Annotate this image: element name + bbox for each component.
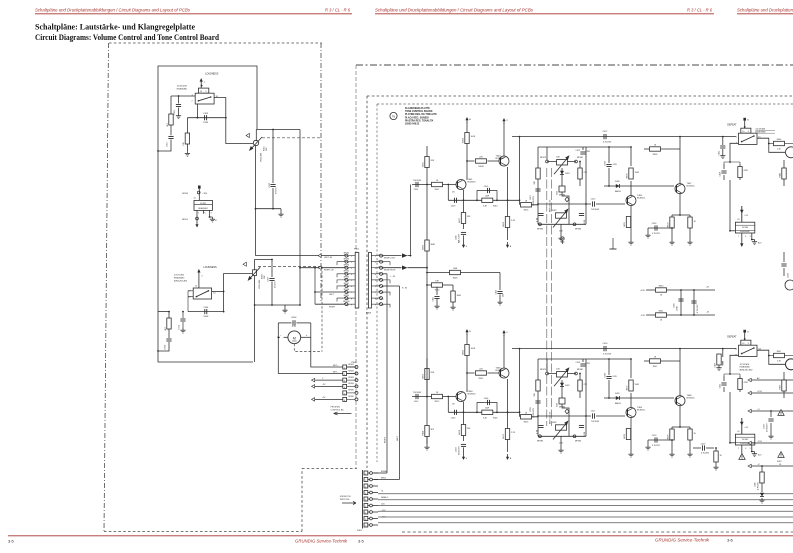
diode D425 wire — [604, 397, 674, 399]
svg-text:+5V: +5V — [744, 427, 748, 429]
capacitor C453 — [454, 198, 456, 203]
SC301 pins — [196, 210, 198, 213]
wire base divider T456 — [467, 372, 475, 374]
wire loudness pin 1 left — [171, 95, 195, 97]
right PCB outline: inner dashed left border — [376, 104, 378, 462]
svg-text:BAV56: BAV56 — [615, 402, 621, 405]
connector P406 pin 5 — [380, 278, 383, 281]
svg-text:MP085: MP085 — [348, 390, 353, 392]
ground C433 — [770, 434, 772, 436]
svg-text:MP083: MP083 — [537, 441, 543, 443]
svg-text:1K: 1K — [525, 412, 528, 414]
svg-text:2: 2 — [365, 480, 366, 482]
edge resistor R443 — [782, 168, 786, 179]
wire motor leads — [284, 336, 288, 338]
svg-text:470R: 470R — [744, 382, 749, 384]
right PCB outline: outer dashed top border — [367, 95, 793, 97]
power arrow +V T456 — [503, 333, 505, 337]
svg-text:R440: R440 — [659, 286, 664, 288]
test point MP084 — [573, 223, 576, 226]
resistor R404 — [465, 133, 469, 144]
wire collector T463 — [503, 123, 505, 156]
test point MP083 — [539, 435, 542, 438]
svg-text:F: F — [466, 246, 468, 248]
volume pot 2 R302 square — [253, 270, 257, 276]
coupling branch C454 — [447, 397, 449, 413]
transistor T466 — [626, 408, 636, 418]
wire loudness left branch — [170, 96, 172, 114]
stub wire P406 pin 5 — [383, 280, 391, 283]
test point MP083 — [539, 223, 542, 226]
svg-text:2.2K: 2.2K — [777, 148, 782, 150]
svg-text:20R: 20R — [431, 372, 435, 374]
capacitor C303 — [204, 115, 206, 120]
bus wire — [378, 505, 793, 507]
svg-text:100N: 100N — [677, 306, 679, 311]
ground stub at C305 bus — [280, 209, 282, 212]
+B rail wire — [646, 289, 715, 291]
IC DC402 supply arrow — [741, 418, 743, 434]
svg-text:4700/25V: 4700/25V — [767, 423, 769, 432]
svg-text:39K: 39K — [534, 180, 536, 184]
svg-text:A1: A1 — [757, 377, 760, 380]
test point MP081 — [575, 372, 578, 375]
svg-text:27K: 27K — [584, 384, 588, 386]
emitter wire T458 — [463, 402, 465, 413]
svg-text:3: 3 — [365, 486, 366, 488]
capacitor C454 — [454, 410, 456, 415]
resistor R437a on -V rail — [761, 465, 763, 467]
bass pot R421 — [557, 372, 568, 377]
power arrow +V T463 — [503, 121, 505, 125]
resistor R433 — [670, 217, 674, 228]
component C437 on rail — [722, 349, 724, 366]
svg-text:TN: TN — [392, 115, 395, 118]
resistor R446 — [769, 143, 774, 145]
svg-text:6: 6 — [375, 286, 376, 288]
svg-text:R424: R424 — [524, 422, 529, 424]
svg-text:7: 7 — [365, 512, 366, 514]
svg-text:1: 1 — [736, 136, 738, 138]
svg-text:1/3 DC401: 1/3 DC401 — [755, 128, 765, 131]
-B rail wire — [646, 314, 715, 316]
svg-text:R 3 / CL - R 6: R 3 / CL - R 6 — [325, 8, 351, 13]
svg-text:–: – — [280, 334, 282, 337]
loudness bus wire — [187, 117, 225, 119]
wire defeat pin 2 branch — [730, 355, 739, 374]
svg-text:C304: C304 — [203, 307, 209, 309]
connector P401 pin 7 — [364, 510, 368, 514]
svg-text:1K: 1K — [436, 180, 439, 182]
wire P401 pin1 to riser — [374, 472, 387, 474]
capacitor C301 — [168, 136, 173, 138]
svg-text:10K: 10K — [559, 231, 563, 233]
resistor R418 on left rail — [536, 168, 540, 179]
ground stub at C307 bus — [284, 305, 286, 308]
defeat switch S401a pin box — [741, 128, 751, 133]
capacitor C425 — [608, 147, 610, 186]
test point MP079 stub — [546, 359, 548, 372]
resistor R450 10R — [427, 284, 432, 286]
arrow to -B rail — [507, 242, 509, 246]
svg-text:39K: 39K — [534, 392, 536, 396]
tone pots mechanical gang dashed line pair — [546, 168, 548, 426]
svg-text:6.8N: 6.8N — [584, 431, 586, 436]
svg-text:4058-287-452: 4058-287-452 — [174, 279, 188, 282]
svg-text:EG4050BC: EG4050BC — [177, 87, 188, 90]
svg-text:100K: 100K — [471, 348, 476, 350]
svg-text:R416: R416 — [524, 210, 529, 212]
P401 vertical frame — [362, 470, 364, 529]
svg-text:9: 9 — [365, 525, 366, 527]
svg-text:V: V — [506, 332, 508, 334]
defeat bypass rail — [512, 136, 736, 138]
svg-text:–15V: –15V — [640, 315, 646, 317]
page fold vertical line — [355, 65, 357, 468]
svg-text:MP084: MP084 — [575, 441, 581, 443]
wire C301 to shield — [158, 140, 171, 152]
connector P801 pin 8 — [345, 297, 348, 300]
stub to volume pot 1 top — [255, 130, 257, 142]
edge vertical wire upper — [783, 160, 785, 186]
connector P401 pin 9 — [364, 523, 368, 527]
svg-text:100N: 100N — [203, 316, 208, 318]
connector P801 pin 4 — [345, 272, 348, 275]
diode D433 — [760, 493, 764, 497]
svg-text:C400: C400 — [456, 234, 458, 240]
svg-text:BC850C: BC850C — [637, 198, 646, 200]
stub wire P406 pin 7 — [383, 292, 391, 295]
svg-text:KLANGREGELPLATTE: KLANGREGELPLATTE — [405, 107, 430, 110]
svg-text:C436: C436 — [755, 482, 757, 487]
collector feed T468 — [661, 349, 680, 361]
edge arrow –V — [748, 464, 751, 468]
svg-text:R411: R411 — [479, 378, 485, 380]
tone network bottom wire — [538, 435, 586, 437]
svg-text:2: 2 — [351, 262, 352, 264]
resistor R439 — [738, 167, 742, 178]
svg-text:1: 1 — [365, 473, 366, 475]
wire right channel vertical — [299, 130, 301, 306]
svg-text:R . IN: R . IN — [402, 288, 407, 290]
svg-text:1K: 1K — [660, 320, 663, 322]
svg-text:R407: R407 — [435, 189, 440, 191]
svg-text:C429: C429 — [701, 443, 706, 445]
svg-text:R422: R422 — [552, 210, 557, 212]
svg-text:2: 2 — [344, 374, 345, 376]
svg-text:C430: C430 — [603, 343, 609, 345]
svg-text:1/3 DC304: 1/3 DC304 — [177, 85, 188, 88]
signal flow triangle at volume pot — [246, 133, 249, 137]
svg-text:MP079: MP079 — [540, 157, 546, 159]
svg-text:LEFT–IN: LEFT–IN — [324, 257, 333, 259]
svg-text:14: 14 — [213, 293, 216, 295]
edge capacitor C432 — [783, 252, 785, 276]
svg-text:3.3N: 3.3N — [613, 164, 618, 166]
svg-text:5: 5 — [375, 280, 376, 282]
svg-text:P406: P406 — [366, 313, 372, 315]
connector P802 pin 2 — [343, 372, 347, 376]
svg-text:LEFT: LEFT — [397, 435, 399, 441]
svg-text:C433: C433 — [764, 423, 766, 429]
base wire T458 — [412, 396, 457, 398]
resistor R416 1K series — [519, 200, 521, 205]
svg-text:2N2: 2N2 — [587, 151, 590, 153]
svg-text:VOLUME: VOLUME — [261, 152, 263, 162]
svg-text:MP082: MP082 — [348, 370, 353, 372]
svg-text:2.2K: 2.2K — [511, 432, 516, 434]
capacitor C304 — [188, 311, 224, 313]
right page bottom dashed border — [402, 531, 793, 533]
capacitor C409 electrolytic — [535, 400, 540, 402]
resistor R425 — [482, 410, 493, 414]
svg-text:C310: C310 — [179, 324, 181, 330]
svg-text:L . IN: L . IN — [391, 276, 396, 278]
svg-text:3: 3 — [375, 268, 376, 270]
svg-text:V: V — [506, 120, 508, 122]
loudness switch box — [195, 93, 214, 104]
svg-text:R418: R418 — [459, 429, 461, 435]
svg-text:RIGHT: RIGHT — [385, 436, 387, 443]
capacitor C413 — [582, 359, 584, 362]
diode D426 — [616, 184, 620, 188]
svg-text:R431: R431 — [624, 221, 626, 227]
svg-text:C425: C425 — [605, 160, 607, 166]
svg-text:P801: P801 — [354, 249, 360, 251]
svg-text:MP063: MP063 — [344, 258, 349, 260]
wire volume pot 1 output — [255, 146, 257, 256]
resistor R307 — [168, 312, 170, 318]
stub wire P406 pin 9 — [383, 304, 391, 307]
resistor R447 — [769, 355, 774, 357]
emitter resistor R413 — [507, 379, 509, 452]
svg-text:4: 4 — [365, 493, 366, 495]
wire C302b to shield — [158, 342, 169, 351]
svg-text:1K: 1K — [654, 357, 657, 359]
capacitor 100N mid box — [559, 398, 565, 404]
capacitor C422 — [723, 376, 725, 392]
wire bus above volume pot 1 — [256, 129, 300, 131]
svg-text:MP083: MP083 — [537, 229, 543, 231]
svg-text:M: M — [293, 337, 296, 341]
svg-text:TLV/100V: TLV/100V — [413, 392, 422, 394]
svg-text:MP067: MP067 — [344, 283, 349, 285]
svg-text:MP003: MP003 — [182, 193, 188, 195]
svg-text:150R: 150R — [635, 172, 640, 174]
svg-text:B: B — [469, 119, 471, 121]
svg-text:8: 8 — [375, 298, 376, 300]
svg-text:39K: 39K — [467, 216, 471, 218]
svg-text:R417: R417 — [459, 217, 461, 223]
svg-text:C453: C453 — [451, 205, 456, 207]
left PCB outline: notch vertical dashed — [301, 469, 303, 532]
connector P406 pin 1 — [380, 254, 383, 257]
test point MP079 — [546, 372, 549, 375]
resistor R411 220 — [476, 371, 487, 375]
stub wire P801 pin 8 — [337, 298, 345, 301]
svg-text:TLV/100V: TLV/100V — [591, 421, 600, 423]
svg-text:C401: C401 — [414, 189, 419, 191]
ground R461 — [452, 302, 454, 305]
wire mid feed — [426, 252, 428, 398]
tone network right rail — [585, 359, 587, 436]
loudness switch pin box — [198, 88, 208, 93]
resistor R419 — [579, 162, 581, 187]
defeat area link wire — [724, 374, 740, 376]
svg-text:C: C — [202, 276, 204, 278]
tone network ground stub — [560, 224, 562, 236]
resistor R306 — [186, 118, 188, 134]
svg-text:Schaltpläne und Druckplattenab: Schaltpläne und Druckplattenabbildungen … — [35, 8, 190, 13]
svg-text:1/2 DC401: 1/2 DC401 — [740, 363, 750, 366]
svg-text:FROM MC: FROM MC — [331, 407, 341, 409]
power arrow +B upper — [466, 120, 468, 124]
transistor T463 — [499, 156, 509, 166]
svg-text:R448: R448 — [453, 277, 458, 279]
defeat bypass riser — [519, 137, 521, 201]
edge arrow –15V — [748, 441, 751, 445]
svg-text:4: 4 — [745, 236, 746, 238]
left PCB outline: bottom dashed border — [104, 531, 302, 533]
svg-text:C428: C428 — [652, 223, 657, 225]
svg-text:3.3N: 3.3N — [613, 376, 618, 378]
svg-text:EG4050BC: EG4050BC — [740, 231, 750, 233]
capacitor C402 — [415, 394, 417, 399]
loudness unit 2: output pin 14 wire — [212, 291, 224, 293]
svg-text:560: 560 — [503, 294, 505, 297]
ground D433 — [761, 498, 763, 500]
capacitor 100N mid box — [559, 186, 565, 192]
svg-text:VOLUME: VOLUME — [259, 279, 261, 289]
loudness unit 2: input arrow — [198, 272, 200, 288]
svg-text:9: 9 — [205, 91, 206, 93]
SC301 ground branch — [210, 214, 213, 217]
svg-text:4.7U/26V: 4.7U/26V — [758, 481, 760, 490]
capacitor C427 on bypass rail — [603, 134, 605, 139]
defeat switch S401a box — [739, 133, 758, 144]
svg-text:R453: R453 — [423, 373, 425, 379]
capacitor C412 — [582, 147, 584, 150]
header red rule far right — [737, 13, 793, 15]
svg-text:+V: +V — [757, 409, 760, 411]
capacitor C305 — [272, 130, 274, 209]
ground R454 — [426, 445, 428, 447]
svg-text:C406: C406 — [484, 398, 489, 400]
svg-text:3: 3 — [351, 268, 352, 270]
svg-text:C405: C405 — [484, 186, 489, 188]
svg-text:+5V: +5V — [322, 397, 326, 399]
left PCB outline: notch horizontal dashed — [302, 468, 357, 470]
svg-text:10: 10 — [200, 91, 202, 93]
svg-text:3-5: 3-5 — [8, 539, 15, 544]
svg-text:DC404: DC404 — [742, 227, 749, 229]
capacitor C423 branch — [499, 273, 501, 291]
svg-text:MP079: MP079 — [540, 369, 546, 371]
svg-text:C437: C437 — [715, 363, 717, 368]
emitter network T467 — [672, 194, 690, 240]
svg-text:100R: 100R — [457, 295, 462, 297]
capacitor C401 — [415, 182, 417, 187]
resistor R454 riser termination — [426, 425, 428, 445]
svg-text:PLATINE REG. DE TONALITE: PLATINE REG. DE TONALITE — [405, 113, 437, 116]
riser wire MODE LOUT to upper channel input — [410, 185, 412, 256]
svg-text:LOUDNESS: LOUDNESS — [205, 73, 219, 76]
resistor R424 1K series — [519, 412, 521, 417]
svg-text:+15V: +15V — [640, 290, 646, 292]
svg-text:R412: R412 — [435, 401, 440, 403]
svg-text:C427: C427 — [603, 131, 609, 133]
wire P401 pin2 to riser — [374, 479, 400, 481]
tone network mid wire — [538, 203, 586, 205]
svg-text:R451: R451 — [423, 161, 425, 167]
svg-text:MP081: MP081 — [348, 364, 353, 366]
base wire T461 — [412, 184, 457, 186]
resistor R441 — [656, 313, 667, 317]
svg-text:MOT–: MOT– — [333, 371, 339, 373]
edge transistor clipped low — [786, 359, 793, 370]
wire to base of T463 — [488, 160, 500, 162]
from POD input board arrow — [342, 502, 356, 505]
transistor T467 — [675, 184, 685, 194]
wire lower bus volume pot 2 — [255, 304, 285, 306]
wire defeat pin2 to IC — [729, 392, 731, 443]
connector P802 pin 5 — [343, 391, 347, 395]
connector P801 pin 2 — [345, 260, 348, 263]
svg-text:RIGHT: RIGHT — [329, 307, 336, 309]
svg-text:4.7N: 4.7N — [537, 217, 539, 222]
wire defeat output — [757, 138, 785, 152]
svg-text:50K: 50K — [266, 147, 268, 151]
svg-text:DEFEAT: DEFEAT — [727, 124, 737, 127]
svg-text:D422: D422 — [565, 385, 570, 387]
svg-text:1K: 1K — [654, 145, 657, 147]
edge transistor clipped mid — [785, 280, 793, 290]
svg-text:EG4050BC: EG4050BC — [755, 130, 766, 133]
connector P401 pin 1 — [364, 471, 368, 475]
svg-text:3: 3 — [344, 381, 345, 383]
svg-text:SDA2080C: SDA2080C — [198, 207, 209, 210]
svg-text:5: 5 — [750, 236, 751, 238]
svg-text:R408: R408 — [479, 166, 485, 168]
svg-text:MP004: MP004 — [182, 219, 188, 221]
svg-text:EG4050BC: EG4050BC — [740, 366, 751, 369]
svg-text:BC850C: BC850C — [687, 398, 696, 400]
svg-text:–5V: –5V — [322, 384, 326, 386]
resistor R437 — [630, 359, 632, 408]
svg-text:CONTROL BD: CONTROL BD — [331, 409, 345, 411]
svg-text:R438: R438 — [653, 154, 658, 156]
svg-text:6: 6 — [344, 400, 345, 402]
wire collector T456 — [503, 335, 505, 368]
svg-text:BC850C: BC850C — [468, 394, 477, 396]
defeat switch S401b supply stub — [743, 330, 746, 333]
svg-text:+5V: +5V — [744, 215, 748, 217]
capacitor C431 — [436, 287, 438, 295]
riser wire to P401 pin 1 — [386, 274, 388, 473]
edge resistor lower — [783, 372, 785, 398]
resistor R415 — [482, 198, 493, 202]
connector P801 pin 5 — [345, 278, 348, 281]
svg-text:MP062: MP062 — [344, 252, 349, 254]
svg-text:C431: C431 — [433, 297, 435, 302]
bus wire — [378, 510, 793, 512]
signal path wire — [448, 411, 519, 413]
resistor R418 bias chain — [463, 412, 465, 441]
svg-text:C409: C409 — [530, 406, 532, 412]
defeat bypass rail — [512, 348, 736, 350]
resistor R408 220 — [476, 159, 487, 163]
resistor R442 1K — [650, 359, 661, 363]
